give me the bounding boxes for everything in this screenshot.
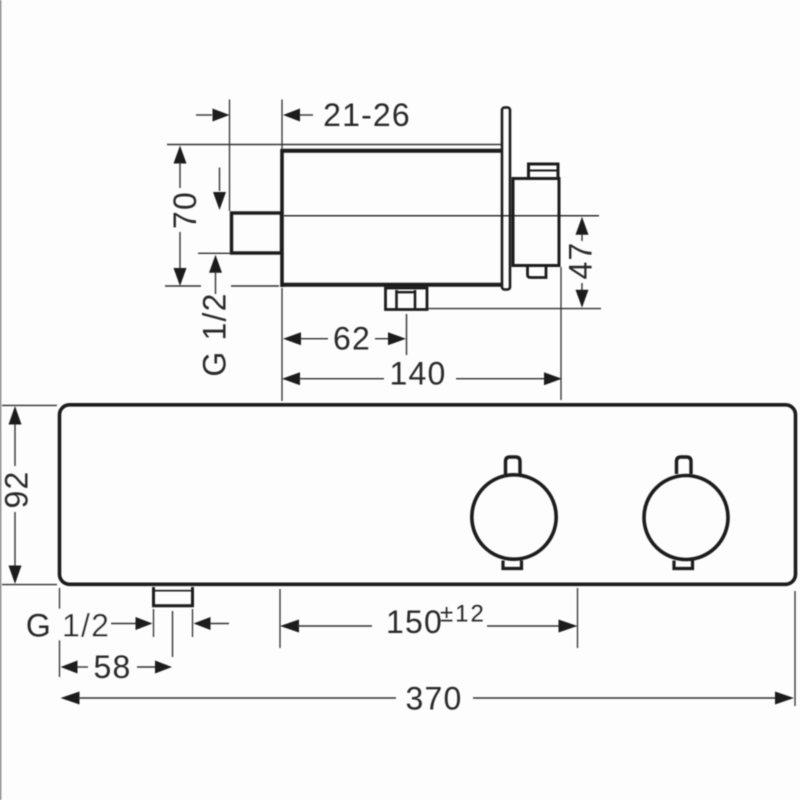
wall plate (side view) bbox=[502, 108, 510, 290]
body top face line (side view) bbox=[167, 144, 502, 146]
label G 1/2 (front view) bbox=[26, 608, 229, 644]
handle knob (side view) bbox=[513, 164, 559, 278]
mixer body (side view) bbox=[282, 149, 502, 287]
outlet nut (side view) bbox=[386, 288, 428, 310]
right knob stem bbox=[677, 457, 692, 474]
extension line body left edge top bbox=[281, 100, 283, 150]
inlet connector box (side view) bbox=[232, 213, 282, 253]
svg-text:70: 70 bbox=[167, 191, 203, 229]
mixer front panel bbox=[60, 405, 796, 585]
svg-text:47: 47 bbox=[563, 242, 599, 280]
extension line left of 21-26 bbox=[229, 100, 231, 212]
extension line x795 below panel bbox=[794, 591, 796, 706]
dimension 62 bbox=[283, 321, 406, 357]
dimension 140 bbox=[282, 356, 562, 392]
label G 1/2 (side view) bbox=[197, 292, 233, 376]
left knob bottom tab bbox=[503, 561, 522, 569]
dimension 150±12 bbox=[280, 601, 578, 641]
dimension 370 bbox=[61, 681, 795, 717]
svg-text:58: 58 bbox=[94, 649, 132, 685]
left page edge artifact bbox=[0, 0, 2, 800]
extension line x59.5 below panel bbox=[59, 588, 61, 677]
svg-text:±12: ±12 bbox=[440, 601, 486, 628]
body centerline bbox=[284, 215, 599, 217]
dimension 70 bbox=[165, 146, 279, 287]
dimension 58 bbox=[61, 649, 173, 685]
outlet extension lines (front) bbox=[154, 609, 193, 637]
extension lines for 150 bbox=[280, 588, 578, 648]
dimension 47 bbox=[563, 217, 599, 308]
svg-text:370: 370 bbox=[406, 681, 463, 717]
dimension 21-26 bbox=[196, 97, 411, 133]
right knob bottom tab bbox=[674, 561, 693, 569]
outlet centerline (front view) bbox=[172, 611, 174, 657]
svg-text:150: 150 bbox=[386, 604, 443, 640]
svg-text:21-26: 21-26 bbox=[323, 97, 411, 133]
G 1/2 leader arrows (side view) bbox=[209, 168, 226, 295]
extension line x561 knob edge bbox=[560, 267, 562, 400]
svg-text:140: 140 bbox=[390, 356, 447, 392]
left knob stem bbox=[506, 457, 521, 474]
bottom outlet (front view) bbox=[154, 587, 193, 606]
extension line for 47 bottom bbox=[428, 308, 601, 310]
extension line x282 below body bbox=[281, 288, 283, 401]
svg-text:62: 62 bbox=[333, 321, 371, 357]
outlet nut centerline bbox=[406, 314, 408, 355]
svg-text:G 1/2: G 1/2 bbox=[26, 608, 110, 644]
dimension 92 bbox=[0, 405, 57, 584]
left knob circle bbox=[472, 475, 556, 559]
svg-text:92: 92 bbox=[0, 471, 35, 509]
inlet box bottom extension line bbox=[198, 252, 231, 254]
right knob circle bbox=[644, 476, 728, 560]
svg-text:G 1/2: G 1/2 bbox=[197, 292, 233, 376]
